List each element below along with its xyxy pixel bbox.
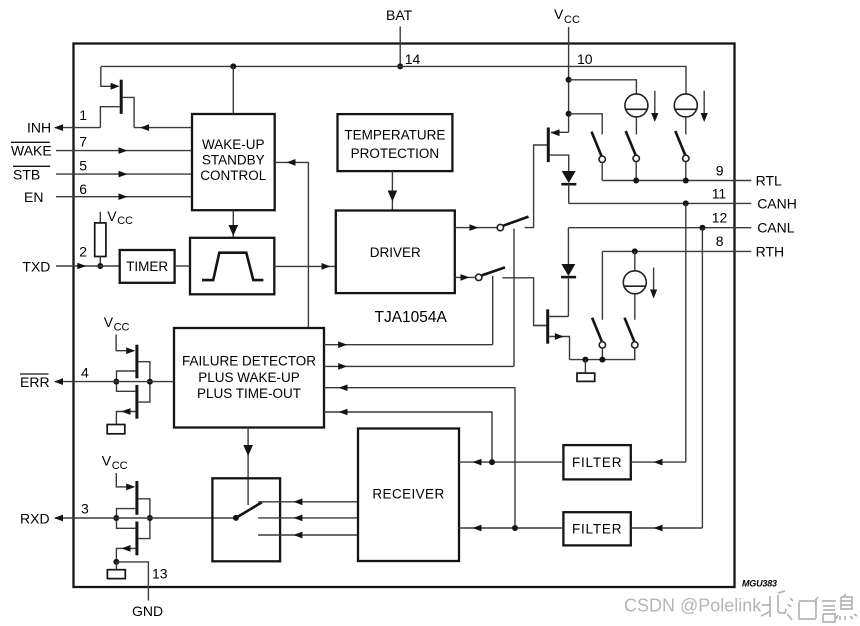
wire filter1 to receiver: [459, 459, 563, 466]
junction RXD/gates: [113, 515, 119, 521]
switch S6: [592, 318, 606, 360]
chip outer boundary: [74, 44, 735, 588]
svg-text:TXD: TXD: [22, 258, 50, 274]
pin 2 TXD: [22, 244, 119, 275]
slope control block: [190, 238, 274, 294]
pin 5 STB: [13, 157, 192, 182]
watermark CSDN: [624, 591, 857, 622]
gate tie wires RXD: [117, 509, 136, 529]
svg-text:9: 9: [716, 162, 724, 178]
svg-text:EN: EN: [24, 189, 43, 205]
svg-text:DRIVER: DRIVER: [370, 245, 421, 260]
junction ERR/drains: [147, 379, 153, 385]
svg-text:CSDN @Polelink: CSDN @Polelink: [624, 596, 762, 616]
emitter rail wire: [570, 348, 635, 360]
switch S6 fixed lead: [601, 251, 603, 319]
junction VCC/S3 branch: [566, 111, 572, 117]
wire VCC to CS1: [569, 80, 637, 94]
wire failure out2: [324, 363, 514, 370]
pin 6 EN: [24, 181, 192, 205]
BAT bus wire: [101, 66, 686, 94]
svg-text:INH: INH: [27, 120, 51, 136]
failure detector block: [174, 328, 324, 428]
substrate terminal RXD: [107, 562, 125, 579]
wire slope to driver: [274, 263, 336, 270]
svg-text:2: 2: [79, 244, 87, 260]
junction CANH/filter1: [683, 200, 689, 206]
svg-text:V: V: [107, 208, 117, 224]
wire failure out2 control: [513, 229, 515, 367]
feedback wire failure to wake-up: [275, 159, 309, 328]
wire receiver out1 to mux: [258, 498, 358, 505]
wire failure in2: [324, 409, 492, 462]
svg-text:RTH: RTH: [756, 243, 785, 259]
svg-text:RXD: RXD: [20, 510, 50, 526]
wire failure to mux control: [243, 428, 253, 506]
switch S7: [625, 318, 639, 360]
svg-text:V: V: [104, 314, 114, 330]
junction source/GND: [113, 559, 119, 565]
wire temperature to driver: [388, 171, 398, 210]
svg-text:RTL: RTL: [756, 173, 782, 189]
svg-text:STANDBY: STANDBY: [202, 153, 265, 168]
wire VCC to switch S3: [569, 114, 603, 135]
wire receiver out2 to mux: [258, 515, 358, 522]
timer block: [120, 250, 175, 283]
svg-text:1: 1: [79, 107, 87, 123]
pin 13 GND lead: [116, 562, 167, 601]
svg-text:V: V: [554, 6, 564, 22]
current source I3: [623, 251, 657, 319]
junction S5/RTL: [683, 178, 689, 184]
transistor Q3 INH driver: [100, 67, 134, 128]
svg-text:BAT: BAT: [386, 7, 413, 23]
pin 11 CANH: [569, 185, 797, 211]
transistor Q4 ERR pull-up: [116, 335, 150, 382]
svg-text:CANL: CANL: [757, 220, 795, 236]
diode D2: [561, 264, 576, 317]
resistor R1 TXD pull-up: [95, 208, 133, 266]
pin 1 INH: [27, 107, 100, 135]
VCC label top: [554, 6, 580, 26]
pin 3 RXD: [20, 501, 236, 527]
pin 9 RTL: [602, 162, 782, 188]
svg-text:RECEIVER: RECEIVER: [372, 487, 444, 502]
switch S3: [592, 132, 606, 181]
wire receiver out3 to mux: [258, 532, 358, 539]
transistor Q2: [534, 309, 569, 359]
svg-text:8: 8: [716, 233, 724, 249]
svg-text:11: 11: [712, 185, 727, 201]
temperature protection block: [338, 114, 453, 171]
wire driver out2: [455, 274, 476, 281]
junction ERR/gates: [113, 379, 119, 385]
junction rail/S6: [599, 357, 605, 363]
svg-text:WAKE-UP: WAKE-UP: [202, 137, 265, 152]
pin 4 ERR: [20, 365, 174, 390]
wire CANL to D2: [567, 228, 569, 264]
pin 8 RTH: [602, 233, 784, 259]
switch S5: [675, 131, 689, 181]
svg-text:12: 12: [712, 210, 728, 226]
wire CANL filter2 input: [631, 525, 703, 532]
wire CANL to filter2: [701, 228, 703, 528]
gate tie wires ERR: [117, 371, 136, 391]
junction filter1/failure in2: [489, 459, 495, 465]
wire timer to slope: [175, 265, 190, 267]
svg-text:ERR: ERR: [20, 374, 50, 390]
junction CANL/filter2: [699, 225, 705, 231]
pin 10 VCC lead: [569, 27, 593, 132]
pin 7 WAKE: [11, 133, 192, 158]
VCC label ERR stage: [104, 314, 130, 334]
junction rail/substrate: [582, 357, 588, 363]
switch S2 driver out2: [476, 267, 547, 325]
junction bus/standby: [230, 63, 236, 69]
transistor Q6 RXD pull-up: [116, 473, 150, 518]
junction TXD/R1: [97, 263, 103, 269]
VCC label RXD stage: [102, 453, 128, 473]
wire failure out1: [324, 341, 493, 348]
svg-text:TEMPERATURE: TEMPERATURE: [344, 128, 445, 143]
wake-up standby control U1: [192, 114, 275, 210]
diode D1: [561, 171, 576, 203]
svg-text:3: 3: [81, 501, 89, 517]
svg-text:MGU383: MGU383: [742, 579, 777, 589]
svg-text:10: 10: [577, 51, 593, 67]
junction filter2/failure in1: [512, 525, 518, 531]
svg-text:PLUS WAKE-UP: PLUS WAKE-UP: [198, 370, 300, 385]
wire wake-up to slope control: [229, 210, 239, 238]
svg-text:CANH: CANH: [757, 195, 797, 211]
mux switch blade: [233, 502, 262, 521]
svg-text:V: V: [102, 453, 112, 469]
svg-text:TIMER: TIMER: [126, 259, 168, 274]
svg-text:GND: GND: [132, 603, 163, 619]
wire failure out1 control: [492, 276, 494, 345]
svg-text:FILTER: FILTER: [572, 521, 622, 536]
wire filter2 to receiver: [459, 525, 563, 532]
wire control to Q3 base: [134, 127, 192, 129]
svg-text:CONTROL: CONTROL: [200, 168, 266, 183]
transistor Q1: [548, 128, 568, 172]
receiver block: [358, 429, 459, 562]
svg-text:PROTECTION: PROTECTION: [351, 146, 440, 161]
junction S4/RTL: [633, 178, 639, 184]
substrate terminal ERR: [107, 425, 125, 434]
substrate terminal: [577, 360, 595, 382]
wire CANH filter1 input: [631, 459, 686, 466]
svg-text:14: 14: [405, 51, 421, 67]
wire CANH to filter1: [685, 203, 687, 462]
svg-text:7: 7: [79, 133, 87, 149]
svg-text:STB: STB: [13, 166, 40, 182]
filter block 2: [563, 512, 630, 545]
switch S4: [626, 131, 640, 181]
junction RXD/drains: [147, 515, 153, 521]
svg-text:WAKE: WAKE: [11, 143, 52, 159]
current source I1: [625, 91, 659, 135]
pin 14 BAT lead: [400, 26, 420, 67]
svg-text:5: 5: [79, 157, 87, 173]
svg-text:CC: CC: [114, 322, 130, 334]
transistor Q5 ERR pull-down: [116, 382, 149, 425]
wire driver out1: [455, 224, 497, 231]
current source I2: [674, 91, 708, 135]
svg-text:CC: CC: [564, 14, 580, 26]
transistor Q7 RXD pull-down: [116, 518, 149, 562]
svg-text:FILTER: FILTER: [572, 455, 622, 470]
svg-text:FAILURE DETECTOR: FAILURE DETECTOR: [182, 353, 316, 368]
svg-text:CC: CC: [112, 460, 128, 472]
pin 12 CANL: [568, 210, 794, 236]
filter block 1: [563, 445, 630, 479]
wire failure in1: [324, 384, 515, 528]
mux block: [212, 478, 280, 561]
svg-text:TJA1054A: TJA1054A: [375, 309, 448, 326]
svg-text:CC: CC: [117, 215, 133, 227]
driver block: [336, 211, 455, 294]
svg-text:PLUS TIME-OUT: PLUS TIME-OUT: [197, 386, 301, 401]
junction RTH/CS3: [632, 248, 638, 254]
switch S1 driver out1: [497, 145, 547, 231]
svg-text:13: 13: [152, 566, 168, 582]
svg-text:4: 4: [81, 365, 89, 381]
wire bus to wake-up box: [232, 66, 234, 114]
junction pin14/bus: [397, 63, 403, 69]
svg-text:6: 6: [79, 181, 87, 197]
junction VCC/CS1 branch: [566, 77, 572, 83]
